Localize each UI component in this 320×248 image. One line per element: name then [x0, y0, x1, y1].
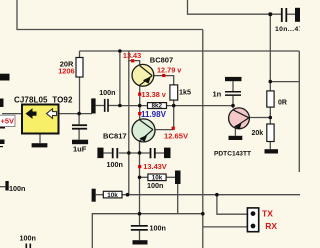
svg-text:1n: 1n [213, 90, 222, 99]
wire 20k bottom to ground [269, 142, 271, 150]
svg-text:100n: 100n [107, 160, 123, 169]
left edge fragment bar B [0, 99, 4, 108]
wire RX into connector [203, 226, 248, 228]
svg-text:BC807: BC807 [150, 55, 173, 64]
resistor 20R [76, 58, 83, 78]
regulator CJ78L05 yellow box [22, 105, 59, 134]
label +5V box [0, 115, 15, 126]
svg-text:CJ78L05 TO92: CJ78L05 TO92 [14, 95, 73, 104]
svg-text:8k2: 8k2 [152, 103, 163, 110]
wire base net y=105.6 right of 8k2 [166, 105, 233, 107]
wire long vertical x=128.8 [128, 61, 130, 195]
pad right of 10k A [175, 171, 181, 185]
wire 1k5 bottom lead [173, 100, 175, 130]
wire 1uF top stem [78, 114, 80, 125]
ground bar regulator [32, 143, 48, 147]
pad cap row right [164, 148, 171, 159]
wire TX elbow into connector [217, 195, 248, 215]
wire y=81.6 to right edge [270, 81, 299, 83]
left edge fragment bar C [0, 126, 5, 129]
wire bottom cap ground stem [139, 231, 141, 241]
wire BC807 collector to 1k5 [152, 76, 174, 85]
wire 0R bottom to 20k top [269, 107, 271, 124]
left edge fragment bar E [0, 146, 3, 147]
regulator white arrow [47, 109, 57, 119]
capacitor 1n plates [225, 91, 241, 96]
transistor PDTC143TT [229, 108, 250, 129]
resistor 0R [267, 91, 274, 107]
svg-text:11.98V: 11.98V [141, 110, 167, 119]
probe dot 13.38 [138, 93, 141, 96]
wire right edge vertical x=299.3 [298, 51, 300, 172]
pad 100n A [91, 98, 95, 113]
ground bar PDTC emitter [229, 136, 243, 140]
capacitor 1uF [72, 124, 87, 129]
wire 20R top lead [79, 51, 81, 58]
svg-text:1uF: 1uF [73, 144, 87, 153]
svg-text:100n: 100n [147, 181, 163, 190]
regulator black arrow [26, 108, 37, 119]
pad top right black box [295, 8, 300, 22]
svg-text:0R: 0R [278, 99, 287, 106]
svg-text:BC817: BC817 [103, 131, 127, 140]
wire PDTC base stem [232, 96, 234, 108]
wire emitter jog of BC807 [129, 51, 140, 65]
wire 100n cap A left [96, 105, 104, 107]
wire 20R bottom lead [79, 77, 81, 114]
wire main vertical x=202.8 [202, 30, 204, 248]
wire BC817 collector [153, 129, 174, 131]
wire vertical x=270 from top junction [269, 14, 271, 91]
resistor 20k [267, 124, 274, 142]
wire PDTC emitter stem [234, 128, 236, 136]
wire rail y=51 [80, 50, 300, 52]
wire regulator ground stem [39, 134, 41, 144]
capacitor row right 100n plates [150, 148, 156, 158]
transistor BC807 [132, 64, 154, 86]
wire vertical x=119.9 [119, 51, 121, 106]
wire cap row left segment [104, 152, 112, 154]
capacitor 100n bottom left corner [26, 244, 32, 248]
svg-text:PDTC143TT: PDTC143TT [214, 151, 251, 158]
wire 1n upper stem [232, 81, 234, 91]
probe dot 13.43V [138, 165, 141, 168]
ground bar inverted 1n [225, 77, 242, 81]
wire cap row right segment [155, 152, 164, 154]
probe dot 13.43 [131, 59, 134, 62]
wire regulator output [59, 113, 92, 115]
wire RX lower y=213.7 [92, 214, 203, 248]
ground bar 1uF [72, 140, 88, 145]
wire 10k B left to pad [96, 194, 104, 196]
ground bar 20k [265, 149, 279, 153]
ground bar bottom cap [133, 240, 148, 244]
probe dot 12.79 [162, 74, 165, 77]
capacitor 100n A plates [104, 99, 109, 112]
wire 100n cap A right [108, 105, 120, 107]
wire 10k A right to pad [166, 176, 175, 178]
probe dot 11.98 [138, 112, 141, 115]
resistor 10k boxed right [148, 174, 166, 181]
left edge fragment bar D [0, 140, 5, 145]
svg-text:10n...47n: 10n...47n [275, 26, 300, 33]
svg-text:20k: 20k [252, 130, 264, 137]
svg-text:13.43: 13.43 [123, 51, 141, 60]
svg-text:+5V: +5V [1, 117, 15, 126]
resistor 8k2 boxed [148, 103, 167, 109]
svg-text:RX: RX [265, 221, 277, 231]
wire base net y=105.6 left of 8k2 [120, 105, 148, 107]
wire top step at x=187.5 [188, 0, 282, 14]
svg-text:10k: 10k [107, 192, 118, 199]
resistor 1k5 [170, 85, 178, 100]
capacitor 100n bottom middle [131, 225, 148, 231]
svg-text:100n: 100n [99, 88, 115, 97]
wire BC817 emitter down x=139.5 [139, 142, 141, 226]
wire +5V input [2, 113, 22, 115]
wire capacitor to pad top right [287, 13, 296, 15]
svg-text:100n: 100n [20, 234, 36, 243]
wire left edge 100n pad [0, 186, 5, 188]
resistor 10k boxed left [103, 191, 122, 198]
wire pad stem x=177.7 [177, 184, 179, 214]
wire 10k A left [140, 176, 148, 178]
wire TX net y=194.7 [122, 194, 300, 196]
connector TX/RX [247, 208, 258, 232]
left edge fragment bar A [0, 74, 10, 81]
node junction dots [77, 12, 272, 215]
probe dot 12.65 [172, 127, 175, 130]
pad cap row left [97, 148, 103, 159]
wire top-left vertical [17, 0, 203, 30]
svg-text:13.38 v: 13.38 v [142, 90, 167, 99]
svg-text:12.65V: 12.65V [164, 132, 189, 141]
pad 100n left edge [5, 181, 8, 191]
wire cap row middle segment [119, 152, 150, 154]
svg-text:100n: 100n [9, 184, 25, 193]
capacitor row left 100n plates [112, 148, 118, 158]
svg-text:TX: TX [262, 209, 273, 219]
wire PDTC collector [249, 117, 270, 119]
svg-text:1k5: 1k5 [179, 87, 191, 96]
transistor BC817 [132, 119, 155, 142]
capacitor 10n top right [281, 8, 287, 22]
svg-text:13.43V: 13.43V [143, 162, 166, 171]
wire between transistors x=139.7 [139, 86, 141, 120]
svg-text:100n: 100n [150, 224, 166, 233]
pad left of 10k B [92, 189, 96, 202]
wire 1uF bottom stem [78, 130, 80, 140]
svg-text:1206: 1206 [58, 66, 74, 75]
svg-text:12.79 v: 12.79 v [157, 65, 182, 74]
